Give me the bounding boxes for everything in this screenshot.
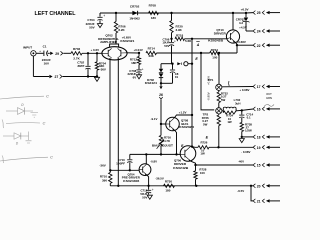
pencil sketch line 2 xyxy=(2,120,4,129)
node feedback/R712 xyxy=(138,52,140,54)
svg-text:25: 25 xyxy=(257,11,261,15)
Q708 base node xyxy=(160,123,162,125)
transistor Q710 driver xyxy=(226,30,239,43)
arrow and circle symbol on wire xyxy=(177,62,181,65)
svg-text:6V: 6V xyxy=(133,75,137,79)
svg-text:1W: 1W xyxy=(227,120,232,124)
ground C708 xyxy=(136,75,141,79)
capacitor C708 xyxy=(136,69,141,71)
svg-text:R714: R714 xyxy=(148,46,156,50)
ground Zobel xyxy=(239,139,244,143)
svg-text:BIAS ADJUST: BIAS ADJUST xyxy=(152,144,173,148)
connector pin 20 xyxy=(253,184,255,188)
svg-text:+1.2V: +1.2V xyxy=(179,110,187,114)
svg-text:50V: 50V xyxy=(142,196,147,200)
svg-text:0.1: 0.1 xyxy=(247,116,251,120)
node top rail / R706 xyxy=(115,12,117,14)
svg-text:-0.80V: -0.80V xyxy=(206,92,210,100)
node rail/Q710 collector xyxy=(232,12,234,14)
svg-text:KS024306: KS024306 xyxy=(123,179,139,183)
pen squiggle xyxy=(264,104,274,106)
svg-text:18K: 18K xyxy=(131,61,137,65)
svg-text:50V: 50V xyxy=(164,44,169,48)
resistor R724 xyxy=(210,51,219,54)
svg-text:KS2424: KS2424 xyxy=(145,81,157,85)
wire feedback line to R724 xyxy=(157,52,210,54)
zener CR703 xyxy=(245,13,247,17)
svg-text:16: 16 xyxy=(257,107,261,111)
svg-text:OUT: OUT xyxy=(266,92,272,96)
pencil sketch line 1 xyxy=(0,96,44,99)
svg-text:+4.5V: +4.5V xyxy=(239,26,247,30)
svg-text:33K: 33K xyxy=(148,54,154,58)
node C702 xyxy=(87,52,89,54)
svg-text:CR702: CR702 xyxy=(130,4,140,8)
connector pin 25 xyxy=(246,12,253,14)
resistor R732 xyxy=(218,90,220,92)
wire to pin 20 xyxy=(251,185,253,187)
resistor R714 feedback xyxy=(146,51,157,54)
svg-text:KS02421: KS02421 xyxy=(120,39,134,43)
wire top +rail y=13 xyxy=(100,12,246,14)
connector pin 24 xyxy=(253,29,255,33)
svg-text:C: C xyxy=(50,155,53,160)
ground input return xyxy=(94,77,99,81)
wire to pin24 xyxy=(246,30,253,32)
svg-text:20: 20 xyxy=(257,184,261,188)
svg-text:-36V: -36V xyxy=(99,163,105,167)
svg-text:R702: R702 xyxy=(73,47,81,51)
connector pin 17 xyxy=(253,85,255,89)
test point TP2 output node xyxy=(216,108,222,114)
svg-text:KS0242B: KS0242B xyxy=(208,39,223,43)
svg-text:150PF: 150PF xyxy=(116,162,125,166)
svg-text:1/2W: 1/2W xyxy=(245,129,252,133)
svg-text:24: 24 xyxy=(257,30,261,34)
svg-text:26: 26 xyxy=(159,93,163,97)
svg-text:R708: R708 xyxy=(149,4,157,8)
capacitor C710 xyxy=(129,154,131,159)
Q710 emitter xyxy=(235,42,237,53)
test point TP1 xyxy=(216,84,222,90)
wire bottom rail xyxy=(110,185,251,187)
node R720/R718/C706 xyxy=(170,38,172,40)
svg-text:-9.1V: -9.1V xyxy=(151,117,158,121)
wire Q702 right base to feedback line xyxy=(127,52,139,54)
connector pin 22 xyxy=(253,43,255,47)
dual transistor Q702 differential amplifier xyxy=(102,47,127,60)
wire pin27 return line xyxy=(32,56,34,77)
svg-text:+6.5V: +6.5V xyxy=(241,8,249,12)
svg-text:68PF: 68PF xyxy=(77,64,84,68)
svg-text:-0.8V: -0.8V xyxy=(150,160,157,164)
svg-text:27: 27 xyxy=(55,75,59,79)
svg-text:+0.04V: +0.04V xyxy=(134,48,143,52)
node output to Zobel xyxy=(241,109,243,111)
input jack J1 xyxy=(31,51,36,56)
wire to Q710 base xyxy=(185,38,227,40)
svg-text:3.9K: 3.9K xyxy=(176,28,183,32)
diode CR702 xyxy=(132,11,137,15)
svg-text:-40V: -40V xyxy=(238,159,244,163)
resistor R726 collector line xyxy=(191,145,193,147)
svg-text:21: 21 xyxy=(257,199,261,203)
resistor R718 xyxy=(175,37,185,40)
resistor R710 xyxy=(109,170,111,172)
pencil diode D2 xyxy=(3,135,14,137)
svg-text:15: 15 xyxy=(257,164,261,168)
resistor R704 xyxy=(96,53,98,62)
svg-text:100: 100 xyxy=(200,171,205,175)
svg-text:C1: C1 xyxy=(43,45,47,49)
ground for C704 xyxy=(97,24,102,28)
svg-text:DRIVER: DRIVER xyxy=(214,32,227,36)
wire -40V line to pin 15 xyxy=(196,164,254,166)
potentiometer R716 bias adjust xyxy=(159,135,162,146)
svg-text:C: C xyxy=(46,93,49,98)
wire Q702 left collector down xyxy=(109,58,111,170)
pencil diode D1 xyxy=(6,110,18,112)
collector bar to R706 xyxy=(110,44,119,47)
wire Q702 right lead down xyxy=(117,58,119,186)
svg-text:KS0232D: KS0232D xyxy=(179,125,194,129)
resistor R706 xyxy=(115,13,117,22)
svg-text:5W: 5W xyxy=(221,98,226,102)
svg-text:LEFT CHANNEL: LEFT CHANNEL xyxy=(35,11,76,17)
svg-text:GRN: GRN xyxy=(266,96,272,100)
capacitor C702 xyxy=(87,53,89,65)
svg-text:-36.5V: -36.5V xyxy=(155,177,164,181)
svg-text:- 0.08V: - 0.08V xyxy=(241,150,250,154)
svg-text:3uH: 3uH xyxy=(235,101,240,105)
connector pin 26 down xyxy=(160,83,162,86)
connector pin 19 xyxy=(253,145,255,149)
svg-text:+0.68V: +0.68V xyxy=(237,40,246,44)
transistor Q706 driver xyxy=(180,146,196,162)
wire to R702 xyxy=(63,52,71,54)
connector pin 16 xyxy=(253,107,255,111)
node R704 xyxy=(96,52,98,54)
svg-text:+: + xyxy=(142,67,144,71)
svg-text:22: 22 xyxy=(257,44,261,48)
svg-text:R730: R730 xyxy=(165,179,173,183)
capacitor C1 xyxy=(36,52,43,54)
connector pin 15 xyxy=(253,163,255,167)
transistor Q704 pre-driver xyxy=(139,164,151,176)
svg-text:29: 29 xyxy=(55,52,59,56)
VAS line vertical xyxy=(191,39,193,147)
svg-text:+ 0.08V: + 0.08V xyxy=(239,88,249,92)
svg-text:+: + xyxy=(152,188,154,192)
Q708 emitter wire xyxy=(174,130,176,154)
svg-text:5W: 5W xyxy=(203,122,208,126)
connector pin 18 xyxy=(253,135,255,139)
wire diode top to VAS line xyxy=(161,63,173,65)
svg-text:A: A xyxy=(196,43,200,47)
svg-text:-36V: -36V xyxy=(100,68,106,72)
resistor R702 xyxy=(71,52,82,55)
node R724/output column xyxy=(218,52,220,54)
Q710 collector to rail xyxy=(232,13,234,30)
wire TP1 to pin 17 xyxy=(222,86,253,88)
tick mark xyxy=(228,81,231,86)
capacitor C704 xyxy=(99,13,101,17)
svg-text:+ 0.6V: + 0.6V xyxy=(91,48,100,52)
svg-text:16V: 16V xyxy=(44,61,49,65)
resistor R728 xyxy=(195,165,197,171)
resistor R738 xyxy=(240,122,243,131)
wire to pin 16 xyxy=(242,109,253,110)
svg-text:180: 180 xyxy=(165,189,170,193)
svg-text:390: 390 xyxy=(102,178,107,182)
connector pin 29 out xyxy=(50,52,53,55)
svg-text:17: 17 xyxy=(257,85,261,89)
Q704 collector xyxy=(145,154,147,164)
pencil sketch line 3 xyxy=(0,157,48,161)
svg-text:18: 18 xyxy=(257,135,261,139)
svg-text:TP1: TP1 xyxy=(208,78,214,82)
wire feedback tap down to output xyxy=(201,53,214,110)
svg-text:50V: 50V xyxy=(89,25,94,29)
svg-text:AMPLIFIER: AMPLIFIER xyxy=(100,40,118,44)
wire output column from R724 node xyxy=(218,53,220,84)
resistor R736 xyxy=(218,114,220,115)
resistor R734 parallel xyxy=(222,111,224,113)
svg-text:KS0242B: KS0242B xyxy=(173,166,188,170)
svg-text:100: 100 xyxy=(212,56,217,60)
node rail/R720 xyxy=(170,12,172,14)
wire C710 top line xyxy=(130,153,181,155)
node rail/+6.5V CR703 xyxy=(245,12,247,14)
svg-text:R726: R726 xyxy=(200,141,207,145)
capacitor C714 xyxy=(241,110,243,114)
capacitor C8 parallel diodes xyxy=(172,64,174,70)
svg-text:R724: R724 xyxy=(211,48,219,52)
transistor Q708 bias xyxy=(166,117,180,131)
svg-text:180: 180 xyxy=(151,16,156,20)
inductor L702 with R734 xyxy=(222,110,223,112)
resistor R712 xyxy=(138,53,140,57)
svg-text:R718: R718 xyxy=(176,34,184,38)
svg-text:-6.5V: -6.5V xyxy=(237,189,244,193)
svg-text:8.2K: 8.2K xyxy=(118,28,125,32)
connector pin 21 xyxy=(253,199,255,203)
svg-text:01: 01 xyxy=(175,75,179,79)
svg-text:4.7K: 4.7K xyxy=(164,139,171,143)
Q706 emitter to -40V node xyxy=(191,161,196,165)
Q704 base line xyxy=(110,169,139,171)
resistor R730 xyxy=(164,184,175,187)
resistor R708 xyxy=(149,11,159,14)
Q704 emitter xyxy=(147,175,149,186)
svg-text:1W: 1W xyxy=(200,152,205,156)
svg-text:C: C xyxy=(43,121,46,126)
capacitor C706 xyxy=(171,39,173,42)
wire to pin22 xyxy=(237,44,253,46)
svg-text:3.3: 3.3 xyxy=(239,21,243,25)
diodes D702 bias pair xyxy=(160,64,162,69)
connector pin 27 out xyxy=(49,75,52,78)
svg-text:19: 19 xyxy=(257,146,261,150)
svg-text:+: + xyxy=(174,39,176,43)
svg-text:1N4002: 1N4002 xyxy=(129,16,140,20)
svg-text:+: + xyxy=(103,14,105,18)
wire to pin 21 xyxy=(251,186,253,201)
ground C712 xyxy=(147,195,152,199)
capacitor C712 xyxy=(148,186,150,190)
node feedback tap xyxy=(200,52,202,54)
node R738 / pin18 xyxy=(241,136,243,138)
resistor R720 xyxy=(171,13,173,21)
svg-text:INPUT: INPUT xyxy=(23,46,32,50)
Q708 collector wire xyxy=(174,115,192,118)
